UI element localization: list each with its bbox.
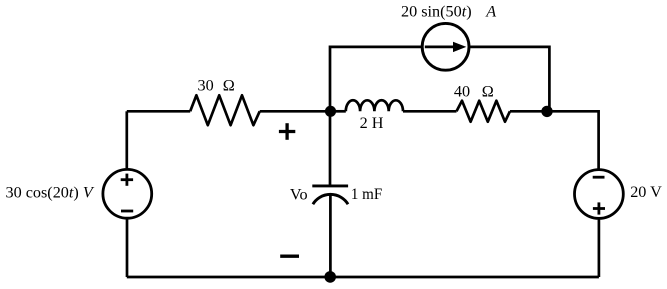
svg-text:30: 30 — [198, 77, 214, 95]
svg-text:20 sin(50t): 20 sin(50t) — [401, 2, 472, 20]
svg-text:Ω: Ω — [223, 77, 235, 95]
svg-text:30 cos(20t) V: 30 cos(20t) V — [6, 183, 95, 201]
svg-text:Ω: Ω — [482, 82, 494, 100]
svg-text:Vo: Vo — [290, 185, 308, 203]
svg-text:20 V: 20 V — [630, 183, 662, 201]
svg-text:1 mF: 1 mF — [351, 185, 382, 203]
svg-text:A: A — [485, 2, 496, 20]
svg-text:40: 40 — [454, 82, 470, 100]
svg-text:2 H: 2 H — [360, 114, 384, 132]
